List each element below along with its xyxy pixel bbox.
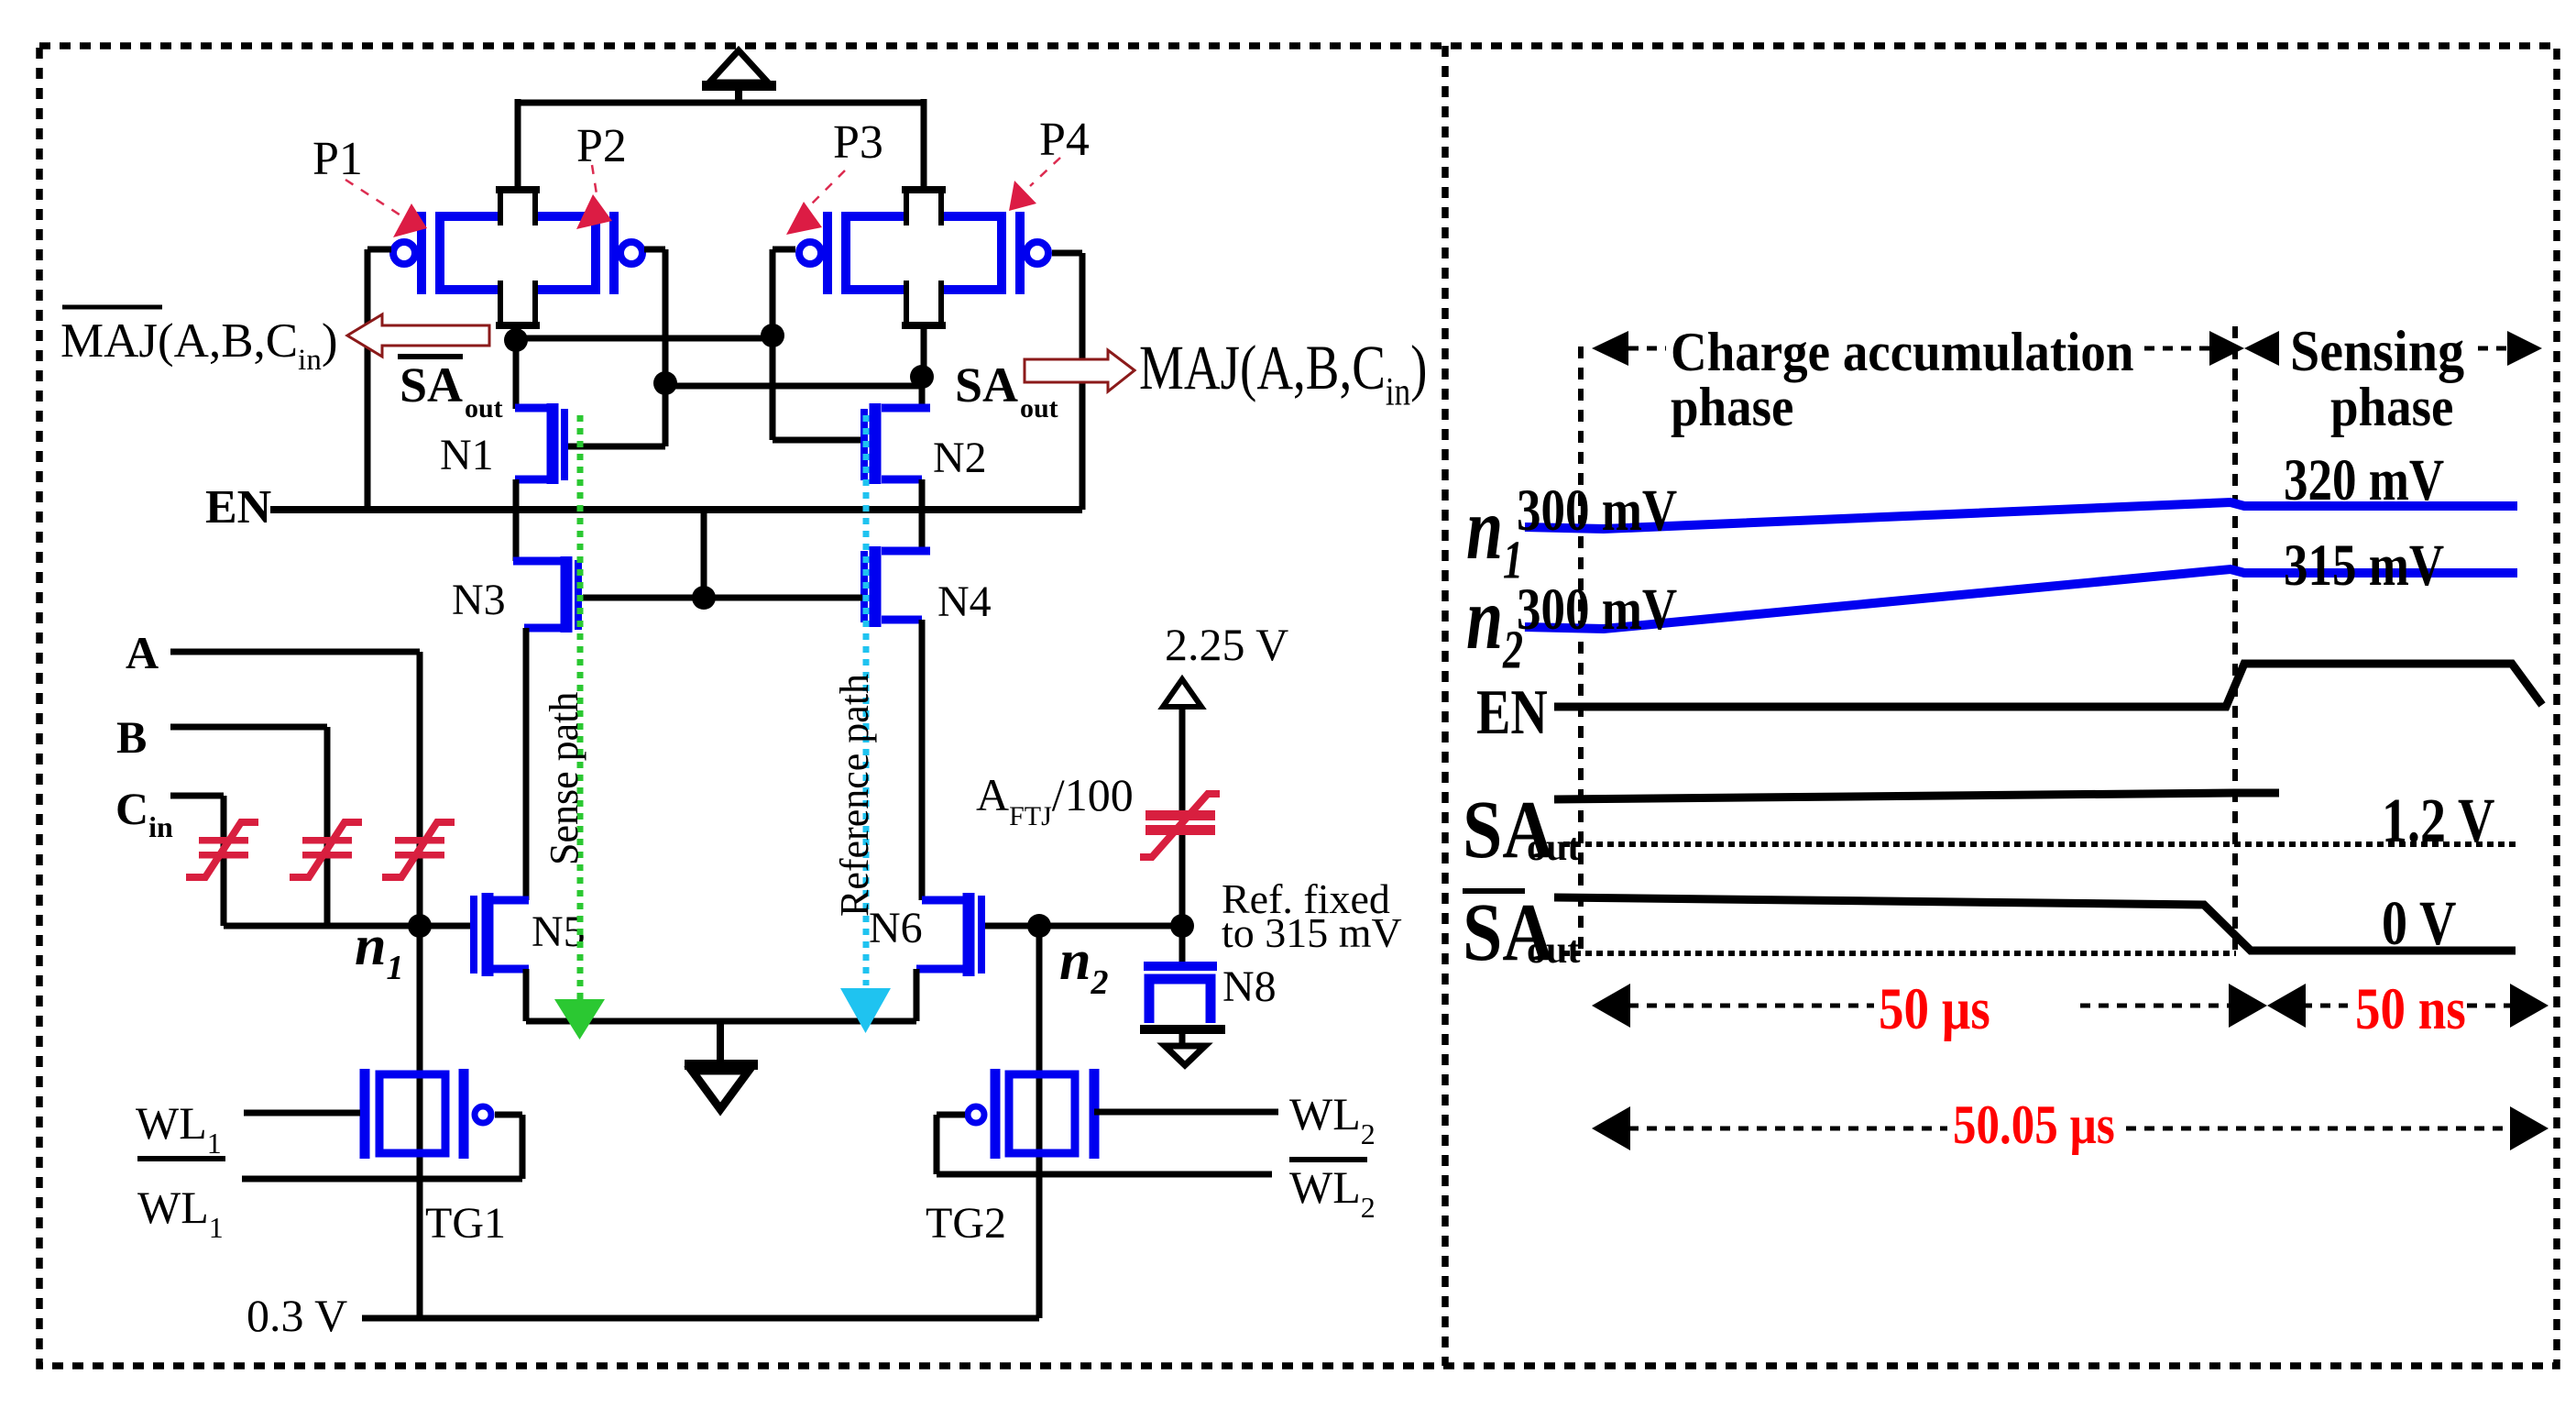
wire input Cin (170, 796, 224, 926)
transistor N2 (864, 377, 930, 551)
svg-text:SA: SA (400, 357, 463, 412)
node SA out (910, 365, 934, 389)
svg-text:0.3 V: 0.3 V (247, 1290, 347, 1341)
wire P3 gate cross-couple (773, 249, 862, 440)
svg-text:P3: P3 (833, 116, 883, 169)
svg-text:320 mV: 320 mV (2284, 446, 2444, 512)
junction cross couple B (761, 324, 784, 347)
svg-text:50 ns: 50 ns (2355, 976, 2466, 1042)
node ref (1170, 914, 1194, 938)
wire node n1 bus (224, 923, 470, 929)
leader arrow to P2 (576, 165, 612, 229)
arrow MAJbar (347, 314, 489, 357)
svg-text:out: out (1020, 393, 1058, 423)
svg-text:N4: N4 (937, 577, 992, 626)
wire P2 gate cross-couple (566, 249, 665, 446)
svg-text:Reference path: Reference path (832, 674, 877, 917)
wire WL1bar (242, 1115, 522, 1179)
wire input A (170, 652, 420, 926)
wire N3 N4 gates EN (583, 510, 862, 598)
FTJ device reference (1140, 794, 1220, 857)
svg-text:TG1: TG1 (425, 1199, 506, 1248)
svg-text:out: out (1527, 827, 1580, 869)
svg-text:Sensing: Sensing (2290, 320, 2464, 384)
transistor N4 (864, 479, 930, 900)
wire n2 column (1036, 926, 1043, 1318)
label SAbar out (398, 357, 503, 423)
power VDD symbol (702, 50, 776, 104)
transistor N3 (513, 556, 578, 900)
wire input B (170, 727, 327, 926)
wire WL2 (1094, 1109, 1278, 1116)
waveform n2 (1466, 532, 2517, 680)
label WL1bar (137, 1159, 225, 1244)
wire n1 column (417, 926, 423, 1318)
supply 2.25V arrow (1163, 619, 1288, 707)
svg-text:to 315 mV: to 315 mV (1222, 909, 1402, 956)
wire P4 gate to EN (1052, 253, 1082, 510)
reference path dotted (840, 415, 891, 1033)
wire SA node (665, 329, 924, 386)
svg-text:phase: phase (2330, 376, 2453, 438)
junction N3 N4 gate node (692, 586, 716, 610)
wire 0.3V rail (362, 1315, 1039, 1322)
node SAbar out (504, 328, 528, 352)
svg-text:N3: N3 (452, 576, 506, 624)
phase annotation sensing (2244, 320, 2542, 438)
transistor N6 (916, 893, 1025, 1021)
svg-text:SA: SA (955, 357, 1018, 412)
waveform EN (1476, 664, 2542, 747)
svg-text:P2: P2 (576, 120, 627, 172)
wire WL1 (244, 1110, 360, 1116)
waveform n1 (1466, 446, 2517, 590)
svg-text:P4: P4 (1039, 114, 1090, 166)
svg-text:phase: phase (1671, 376, 1793, 438)
time annotation 50us 50ns (1592, 976, 2549, 1042)
svg-text:2.25 V: 2.25 V (1165, 619, 1288, 670)
label SA out (955, 357, 1058, 423)
svg-text:300 mV: 300 mV (1517, 576, 1677, 642)
transistor N1 (515, 340, 565, 561)
svg-text:Sense path: Sense path (542, 692, 586, 865)
node n2 (1027, 914, 1051, 938)
svg-text:315 mV: 315 mV (2284, 532, 2444, 598)
svg-text:TG2: TG2 (926, 1199, 1006, 1248)
leader arrow to P3 (786, 170, 845, 235)
svg-text:out: out (1527, 929, 1580, 972)
svg-text:MAJ(A,B,Cin): MAJ(A,B,Cin) (60, 314, 337, 377)
svg-text:MAJ(A,B,Cin): MAJ(A,B,Cin) (1139, 334, 1427, 413)
svg-text:A: A (126, 627, 159, 678)
svg-text:0 V: 0 V (2382, 888, 2456, 959)
svg-text:N2: N2 (933, 434, 987, 482)
svg-text:1.2 V: 1.2 V (2382, 786, 2494, 856)
wire WL2bar (937, 1115, 1272, 1174)
svg-text:50 µs: 50 µs (1879, 976, 1990, 1042)
svg-text:Charge accumulation: Charge accumulation (1671, 321, 2134, 383)
waveform SAbar out (1463, 887, 2516, 978)
svg-text:P1: P1 (312, 133, 363, 185)
PMOS pair P3 P4 (799, 186, 1048, 329)
wire tail ground rail (526, 1018, 916, 1025)
label WL2bar (1289, 1160, 1376, 1224)
leader arrow to P1 (345, 180, 427, 237)
svg-text:EN: EN (1476, 676, 1548, 747)
MOS cap N8 (1140, 962, 1225, 1065)
waveform SA out (1463, 785, 2516, 875)
PMOS pair P1 P2 (393, 186, 642, 329)
transistor N5 (474, 893, 529, 1021)
wire n2 (985, 923, 1182, 929)
transmission gate TG1 (365, 1069, 491, 1159)
svg-text:EN: EN (205, 481, 271, 533)
arrow MAJ (1025, 350, 1135, 391)
wire SAbar node (516, 329, 773, 343)
label MAJbar output (60, 307, 337, 377)
label MAJ output (1139, 334, 1427, 413)
svg-text:50.05 µs: 50.05 µs (1953, 1094, 2115, 1156)
timing dashed phase boundary 1 (1578, 346, 1584, 957)
transmission gate TG2 (968, 1069, 1094, 1159)
ground symbol (685, 1021, 758, 1109)
wire ref column (1179, 706, 1186, 962)
timing dashed phase boundary 2 (2232, 326, 2238, 957)
phase annotation charge accumulation (1592, 321, 2244, 438)
wire P1 gate to EN (367, 249, 391, 510)
junction cross couple C (653, 371, 677, 395)
FTJ device on A (382, 822, 455, 877)
node n1 (408, 914, 432, 938)
sense path dotted (554, 415, 605, 1039)
leader arrow to P4 (1009, 158, 1060, 211)
svg-text:N1: N1 (440, 431, 494, 479)
time annotation 50.05us (1592, 1094, 2549, 1156)
FTJ device on Cin (186, 822, 258, 877)
svg-text:300 mV: 300 mV (1517, 477, 1677, 543)
svg-text:B: B (116, 711, 147, 763)
svg-text:N8: N8 (1222, 962, 1277, 1011)
FTJ device on B (290, 822, 362, 877)
wire VDD rail (518, 99, 924, 189)
wire EN rail (270, 506, 1082, 513)
svg-text:out: out (465, 393, 503, 423)
